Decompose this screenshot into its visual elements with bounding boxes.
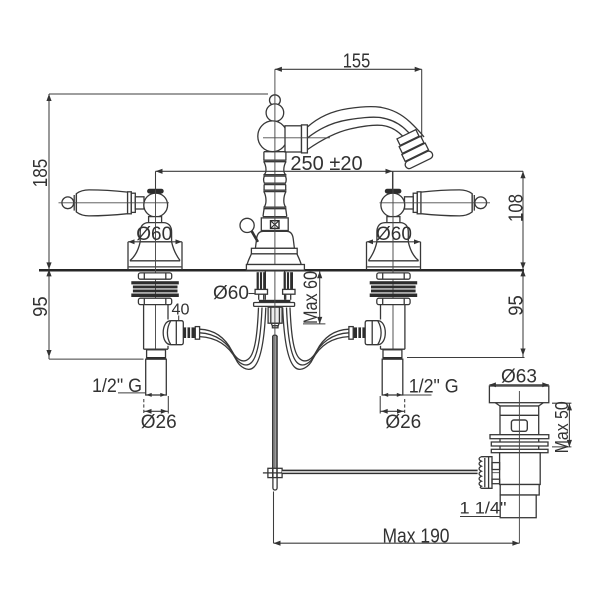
column straight section (263, 185, 265, 191)
dim max 190 (273, 492, 275, 544)
svg-text:185: 185 (30, 159, 52, 188)
spout arm neck (285, 126, 302, 152)
svg-text:Ø26: Ø26 (141, 412, 177, 433)
svg-text:1/2" G: 1/2" G (92, 376, 142, 397)
svg-text:95: 95 (30, 296, 52, 317)
center base ring (246, 265, 304, 271)
spout finial ball (270, 95, 281, 106)
center flare (247, 254, 301, 265)
flange chamfer (495, 403, 500, 406)
center shank lines (264, 272, 266, 300)
column bulge ring (263, 176, 266, 183)
stud nut right (283, 289, 295, 294)
center dome (255, 231, 294, 248)
svg-text:108: 108 (505, 194, 527, 222)
rod centerline (274, 271, 276, 468)
horizontal rod (282, 471, 478, 473)
drain tailpiece (500, 495, 536, 518)
spout arm centerline (263, 137, 330, 139)
column flare to block (263, 209, 264, 217)
drain neck and body (500, 406, 539, 435)
clamp (268, 468, 282, 477)
spout vertical centerline (274, 69, 276, 264)
stud nut left (255, 289, 267, 294)
bracket dark bar (259, 300, 291, 303)
svg-text:Ø60: Ø60 (376, 224, 412, 245)
spout body (258, 121, 288, 152)
cross window (271, 221, 280, 229)
deck line (39, 269, 524, 272)
svg-text:Max 60: Max 60 (301, 271, 322, 324)
spout tube middle contour (307, 117, 418, 143)
spout arm ring (302, 125, 308, 153)
svg-text:Ø60: Ø60 (136, 224, 172, 245)
stud right (284, 272, 293, 289)
svg-text:250 ±20: 250 ±20 (290, 153, 362, 175)
svg-text:Ø60: Ø60 (213, 283, 249, 304)
spout tube bottom contour (307, 125, 411, 149)
spout second ball (266, 104, 284, 122)
dim 155 right extension (421, 69, 423, 143)
svg-text:Ø26: Ø26 (385, 412, 421, 433)
drain window (511, 420, 527, 431)
left valve assembly (59, 172, 183, 369)
svg-text:Max 50: Max 50 (551, 401, 572, 453)
svg-text:1 1/4": 1 1/4" (460, 499, 507, 518)
dim max 60 (319, 271, 321, 324)
drain lower body (500, 453, 541, 485)
dim diameter 26 right (404, 399, 406, 414)
block chamfer (271, 323, 279, 326)
svg-text:40: 40 (172, 302, 190, 319)
dim 250 plus-minus 20 (156, 170, 524, 172)
drain ring bars (490, 435, 549, 439)
knurled nut (479, 457, 492, 489)
svg-text:95: 95 (505, 295, 527, 316)
svg-text:155: 155 (343, 51, 371, 73)
column ring set 1 (264, 151, 286, 153)
escutcheon block (261, 218, 288, 231)
nut tabs (492, 463, 500, 470)
pop-up knob (240, 218, 254, 232)
aerator (393, 128, 434, 170)
column waist 2 (264, 192, 266, 208)
pop-up rod (274, 336, 277, 468)
dim 95 left (48, 269, 50, 359)
dim 185 (48, 94, 50, 269)
drain top flange (489, 386, 548, 403)
svg-text:1/2" G: 1/2" G (409, 377, 459, 398)
dim 95 right (522, 269, 524, 357)
dim diameter 26 left (143, 399, 145, 414)
dim 155 (275, 68, 422, 70)
stud rod left (258, 294, 260, 300)
svg-text:Max 190: Max 190 (383, 525, 450, 547)
dim 108 (522, 171, 524, 269)
right valve assembly (mirrored) (283, 172, 490, 396)
dim max 50 (568, 403, 570, 447)
block nub (272, 326, 278, 328)
bracket plate (254, 303, 295, 307)
center band (251, 248, 297, 254)
slip band (500, 485, 539, 496)
spout tube top contour (307, 107, 424, 137)
clamp pin (273, 478, 277, 490)
body edges in gaps (499, 439, 501, 442)
drain centerline (518, 391, 520, 543)
stud left (257, 272, 266, 289)
stud rod right (285, 294, 287, 300)
pop-up lever (252, 231, 258, 242)
rod guide block (268, 307, 282, 323)
